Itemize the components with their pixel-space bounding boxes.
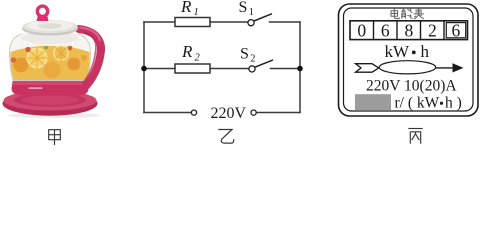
svg-text:0: 0 [357,20,366,40]
kettle body pink bottom band [12,79,89,96]
svg-text:6: 6 [452,20,461,40]
svg-text:S: S [239,0,248,16]
svg-text:6: 6 [381,20,390,40]
disc indicator: arrow head [453,63,464,72]
label yi (CJK 乙) drawn strokes [218,130,234,144]
svg-text:2: 2 [195,52,201,63]
fruit tea contents [10,45,89,80]
svg-text:h: h [421,42,430,61]
neng [401,9,412,19]
kettle base stand [3,91,98,115]
kettle photo (jia figure): electric glass kettle [3,6,101,118]
junction node left [141,66,147,72]
energy meter (bing figure) [339,4,479,116]
switch S2 [249,60,273,72]
wire middle branch right [271,68,301,70]
kettle handle [79,29,101,88]
dian [391,9,399,19]
svg-text:8: 8 [405,20,414,40]
svg-text:220V: 220V [211,105,247,122]
meter title (CJK dian-neng-biao) drawn strokes [391,8,424,19]
lid knob ring [37,17,49,22]
wire middle branch left [144,68,175,70]
supply terminal right [251,110,256,115]
resistor R1 [175,18,210,27]
meter outer case [339,4,479,116]
wire right rail [299,22,301,113]
disc indicator: arrow shaft [436,67,453,69]
svg-text:2: 2 [250,53,255,64]
disc indicator: disc ellipse [379,61,435,74]
wire top branch right [270,21,301,23]
last digit inner frame [446,23,465,38]
wire middle branch middle [210,68,249,70]
meter inner case [344,8,474,111]
disc indicator: fletch [356,64,379,72]
svg-text:R: R [181,42,193,61]
svg-text:kW: kW [385,42,411,61]
junction node right [297,66,303,72]
svg-text:220V 10(20)A: 220V 10(20)A [366,77,457,94]
wire top branch middle [210,21,248,23]
svg-text:2: 2 [428,20,437,40]
glass top band / opening rim [21,33,80,46]
wire bottom left [144,112,191,114]
svg-text:r/ ( kW: r/ ( kW [395,94,440,111]
wire bottom right [256,112,300,114]
label bing (CJK 丙) drawn strokes [408,129,422,144]
svg-text:1: 1 [249,7,254,18]
svg-text:1: 1 [194,7,199,18]
digit register frame [350,21,468,40]
svg-text:R: R [180,0,192,16]
glass jar body [10,34,91,81]
wire left rail [143,22,145,113]
switch S1 [248,14,272,26]
svg-text:S: S [240,45,249,62]
biao [414,8,424,19]
brand text [29,87,43,89]
resistor R2 [175,64,210,73]
revolutions gray box [355,94,391,110]
lid [22,22,78,36]
wire top branch left [144,21,175,23]
svg-text:h ): h ) [445,94,462,111]
label jia (CJK 甲) drawn strokes [49,130,61,145]
supply terminal left [191,110,196,115]
soft shadow [8,113,100,118]
circuit diagram (yi figure) [144,22,300,113]
